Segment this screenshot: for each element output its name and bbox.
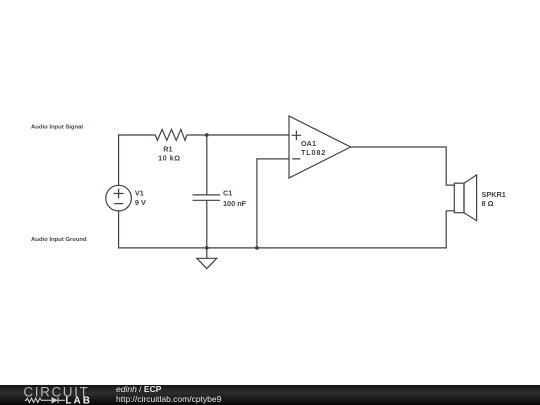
svg-text:OA1: OA1: [301, 139, 316, 148]
svg-text:TL082: TL082: [301, 148, 326, 157]
svg-text:10 kΩ: 10 kΩ: [158, 154, 181, 163]
svg-text:V1: V1: [135, 188, 144, 197]
svg-text:Audio Input Signal: Audio Input Signal: [31, 124, 83, 130]
svg-text:9 V: 9 V: [135, 198, 146, 207]
svg-text:LAB: LAB: [65, 395, 92, 405]
svg-text:Audio Input Ground: Audio Input Ground: [31, 237, 87, 243]
svg-text:C1: C1: [223, 188, 232, 197]
svg-text:R1: R1: [163, 145, 172, 154]
svg-text:8 Ω: 8 Ω: [482, 199, 494, 208]
svg-text:100 nF: 100 nF: [223, 199, 247, 208]
svg-text:SPKR1: SPKR1: [482, 190, 506, 199]
